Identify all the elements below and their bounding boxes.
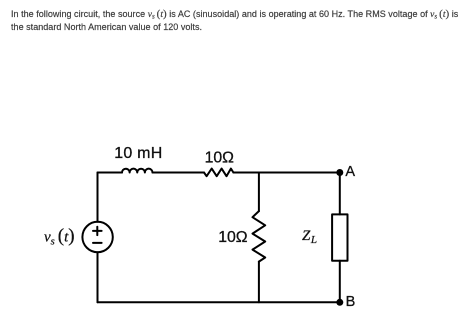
wire left branch bottom xyxy=(97,252,99,302)
wire right branch top xyxy=(339,173,341,215)
plus sign inside source xyxy=(93,230,102,232)
wire middle branch top xyxy=(258,173,260,212)
wire middle branch bottom xyxy=(258,262,260,303)
svg-text:10Ω: 10Ω xyxy=(205,150,235,167)
source VS circle xyxy=(82,222,112,252)
wire top-left segment xyxy=(98,172,123,174)
svg-text:10 mH: 10 mH xyxy=(114,145,162,162)
svg-text:vs (t): vs (t) xyxy=(44,226,75,248)
node A dot xyxy=(336,169,343,176)
bottom wire xyxy=(98,301,340,303)
svg-text:B: B xyxy=(346,294,356,310)
load Z_L box xyxy=(332,214,347,260)
wire resistor to node A xyxy=(233,172,339,174)
svg-text:10Ω: 10Ω xyxy=(218,229,248,246)
resistor R2 10ohm vertical xyxy=(253,211,266,262)
wire right branch bottom xyxy=(339,261,341,303)
wire between inductor and resistor xyxy=(153,172,205,174)
minus sign inside source xyxy=(93,242,102,244)
wire left branch top xyxy=(97,173,99,222)
node B dot xyxy=(336,299,343,306)
svg-text:ZL: ZL xyxy=(302,228,317,246)
resistor R1 10ohm horizontal xyxy=(204,169,233,177)
inductor L1 10 mH xyxy=(122,169,153,173)
svg-text:A: A xyxy=(345,164,355,180)
